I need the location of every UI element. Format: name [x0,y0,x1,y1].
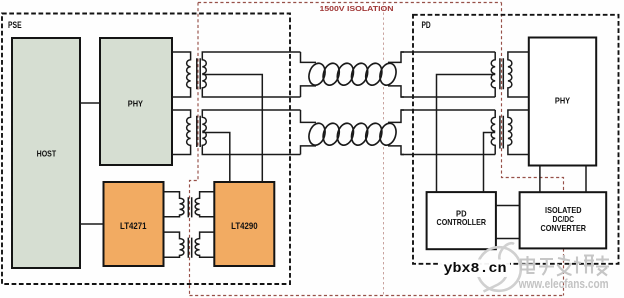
isolation barrier top line [198,2,502,4]
wire PD cable2 top to T4 [401,109,495,111]
block HOST [12,38,80,268]
twisted pair cable 1 loops [306,61,398,87]
wire HOST to LT4271 [80,223,104,225]
transformer T2 core [197,116,200,147]
isolation barrier right branch through PD transformer and DC/DC [502,3,564,296]
transformer ST1 left coil with stubs [164,192,184,217]
transformer T2 (PSE) left coil with wires [172,110,191,155]
transformer T4 (PD) left coil [491,110,495,155]
svg-text:www.elecfans.com: www.elecfans.com [518,277,609,291]
PD dashed box [413,15,619,264]
wire T1 center tap to LT4290 [202,75,262,183]
watermark chinese glyphs [521,255,609,276]
wire PD controller to DC/DC bottom [496,238,520,240]
transformer ST2 right coil with stubs [195,232,214,257]
isolation barrier middle vertical [383,3,385,296]
transformer T1 (PSE) right coil with wires [202,52,300,97]
transformer ST1 right coil with stubs [195,192,214,217]
PSE dashed box [2,14,290,285]
block ISOLATED DC/DC CONVERTER [520,192,607,248]
transformer ST2 left coil with stubs [164,232,184,257]
svg-text:LT4290: LT4290 [231,221,258,232]
block LT4271 [104,182,164,266]
isolation barrier left branch through PSE transformers [190,3,199,296]
transformer T3 core [500,58,503,89]
transformer T4 core [500,116,503,149]
svg-text:HOST: HOST [37,149,57,159]
watermark drop logo [477,243,521,291]
wire PD cable1 top to T3 [401,51,495,53]
twisted pair cable 2 right bracket [388,110,404,155]
wire T2 center tap to LT4290 [202,133,230,183]
svg-text:PD: PD [422,20,431,30]
watermark ybx8.cn halo [440,260,510,278]
wire PHY(PD) to DC/DC right [585,166,587,193]
svg-text:PHY: PHY [128,99,143,109]
transformer T1 (PSE) left coil with wires [172,52,191,97]
svg-text:1500V ISOLATION: 1500V ISOLATION [320,4,394,13]
twisted pair cable 1 left bracket [301,52,317,97]
transformer T3 (PD) left coil [491,52,495,97]
svg-text:ybx8.cn: ybx8.cn [444,261,507,277]
transformer T4 (PD) right coil with wires [508,110,529,155]
wire T4 center tap to PD controller [484,133,496,193]
twisted pair cable 2 left bracket [301,110,317,155]
wire PD controller to DC/DC top [496,205,520,207]
1500V isolation barrier (red dashed) [190,3,564,296]
isolation barrier bottom line [190,295,564,297]
svg-text:LT4271: LT4271 [120,221,147,232]
block PD CONTROLLER [427,192,496,249]
wire PD cable1 bottom to T3 [401,96,495,98]
block PHY (PSE) [100,38,172,165]
twisted pair cable 2 loops [306,121,398,147]
svg-text:CONVERTER: CONVERTER [541,223,587,233]
transformer T2 (PSE) right coil with wires [202,110,300,155]
twisted pair cable 1 right bracket [388,52,404,97]
svg-text:PHY: PHY [555,96,570,106]
wire HOST to PHY [80,102,100,104]
transformer T3 (PD) right coil with wires [508,52,529,97]
transformer ST1 core [188,197,191,217]
transformer ST2 core [188,238,191,258]
wire PHY(PD) to DC/DC left [539,166,541,193]
wire PD cable2 bottom to T4 [401,154,495,156]
wire T3 center tap to PD controller [437,75,496,193]
svg-text:PSE: PSE [8,20,22,30]
transformer T1 core [197,58,200,89]
block PHY (PD) [529,38,596,166]
block LT4290 [214,182,274,266]
svg-text:CONTROLLER: CONTROLLER [437,217,487,227]
